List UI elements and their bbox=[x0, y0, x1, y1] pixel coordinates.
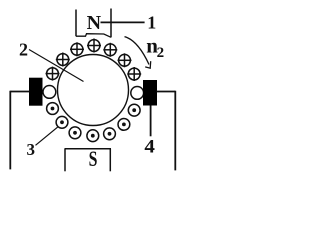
svg-text:3: 3 bbox=[27, 140, 36, 159]
conductor circle 4 (current into page, crossed) bbox=[103, 43, 117, 57]
right wire horizontal from brush bbox=[157, 91, 176, 93]
N pole bracket bottom edge bbox=[76, 34, 111, 38]
conductor circle 11 (current out of page, dotted) bbox=[56, 116, 68, 128]
label 2 bbox=[19, 39, 28, 59]
conductor circle 1 (commutator segment (plain) at 3 o-clock) bbox=[131, 87, 144, 100]
label 4 bbox=[144, 137, 155, 158]
svg-text:4: 4 bbox=[144, 137, 155, 158]
conductor circle 3 (current into page, crossed) bbox=[118, 53, 132, 67]
conductor circle 12 (current out of page, dotted) bbox=[69, 127, 81, 139]
pole label N bbox=[87, 12, 102, 34]
leader line from label 2 to armature bbox=[29, 50, 84, 82]
label 1 bbox=[147, 13, 156, 33]
svg-text:S: S bbox=[89, 146, 98, 171]
conductor circle 2 (current into page, crossed) bbox=[127, 67, 141, 81]
svg-text:1: 1 bbox=[147, 13, 156, 33]
right wire vertical bbox=[174, 91, 176, 171]
label 3 bbox=[27, 140, 36, 159]
armature (big circle) bbox=[58, 55, 129, 126]
N pole bracket left vertical bbox=[75, 10, 77, 37]
svg-text:N: N bbox=[87, 12, 102, 34]
conductor circle 8 (current into page, crossed) bbox=[46, 67, 60, 81]
conductor circle 15 (current out of page, dotted) bbox=[118, 119, 130, 131]
conductor circle 10 (current out of page, dotted) bbox=[47, 103, 59, 115]
conductor circle 9 (commutator segment (plain) at 9 o-clock) bbox=[43, 86, 56, 99]
S pole bracket right vertical bbox=[109, 149, 111, 172]
pole label S bbox=[89, 146, 98, 171]
label n2 bbox=[146, 33, 164, 61]
conductor circle 7 (current into page, crossed) bbox=[56, 53, 70, 67]
rotation arrow n2 (curved) bbox=[125, 37, 151, 69]
conductor circle 13 (current out of page, dotted) bbox=[87, 130, 99, 142]
conductor circle 5 (current into page, crossed) bbox=[87, 39, 101, 53]
left wire horizontal from brush bbox=[10, 91, 29, 93]
right brush (black) bbox=[143, 80, 157, 106]
conductor circle 14 (current out of page, dotted) bbox=[104, 128, 116, 140]
wire down from right brush to label 4 bbox=[150, 106, 152, 137]
leader line from label 3 to conductor bbox=[36, 127, 59, 146]
svg-text:2: 2 bbox=[19, 39, 28, 59]
conductor circle 6 (current into page, crossed) bbox=[70, 42, 84, 56]
left wire vertical bbox=[9, 91, 11, 170]
svg-text:2: 2 bbox=[157, 45, 165, 61]
S pole bracket left vertical bbox=[64, 149, 66, 172]
conductor circle 16 (current out of page, dotted) bbox=[128, 104, 140, 116]
left brush (black) bbox=[29, 78, 43, 106]
S pole bracket top edge bbox=[65, 148, 112, 150]
N pole bracket right vertical bbox=[110, 9, 112, 38]
wire from N pole to terminal 1 bbox=[101, 21, 145, 23]
